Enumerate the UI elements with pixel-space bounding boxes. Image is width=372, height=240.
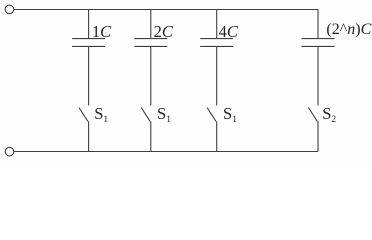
capacitor 4C <box>200 39 233 47</box>
wire branch 4 lower <box>317 121 319 151</box>
switch S2 (branch 4) <box>308 108 317 122</box>
wire branch 2 mid <box>150 46 152 105</box>
capacitor 2C <box>134 39 167 47</box>
wire top rail <box>14 9 318 11</box>
capacitor 1C <box>72 39 105 47</box>
svg-text:1C: 1C <box>92 22 112 41</box>
wire branch 4 upper <box>317 9 319 38</box>
svg-text:S1: S1 <box>94 104 108 125</box>
terminal T1 (top-left) <box>5 5 14 14</box>
wire branch 2 lower <box>150 121 152 151</box>
wire branch 3 lower <box>216 121 218 151</box>
svg-text:2C: 2C <box>154 22 174 41</box>
switch S1 (branch 2) <box>141 108 150 122</box>
switch S1 (branch 3) <box>207 108 216 122</box>
terminal T2 (bottom-left) <box>5 147 14 156</box>
wire branch 1 mid <box>88 46 90 105</box>
capacitor (2^n)C <box>302 39 335 47</box>
wire branch 2 upper <box>150 9 152 38</box>
wire branch 3 upper <box>216 9 218 38</box>
svg-text:S1: S1 <box>157 104 171 125</box>
svg-text:S2: S2 <box>322 104 336 125</box>
wire branch 1 upper <box>88 9 90 38</box>
wire branch 3 mid <box>216 46 218 105</box>
wire bottom rail <box>14 151 318 153</box>
svg-text:(2^n)C: (2^n)C <box>326 21 371 38</box>
wire branch 4 mid <box>317 46 319 105</box>
wire branch 1 lower <box>88 121 90 151</box>
svg-text:S1: S1 <box>223 104 237 125</box>
switch S1 (branch 1) <box>79 108 88 122</box>
svg-text:4C: 4C <box>219 22 239 41</box>
